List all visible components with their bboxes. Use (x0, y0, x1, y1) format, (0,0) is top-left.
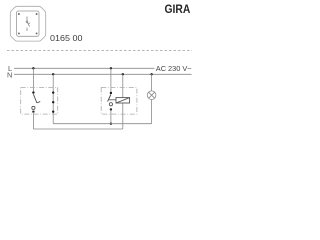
wire L down to switch S1 (32, 68, 34, 92)
wire load line (53, 123, 151, 125)
wire control line to coil (33, 128, 122, 130)
wire N down through left box (52, 74, 54, 123)
terminal dot top (32, 91, 34, 93)
device icon outer frame (10, 6, 45, 41)
lamp E1 (147, 91, 156, 100)
mechanical link to coil (109, 99, 116, 101)
lever (108, 95, 111, 102)
left box (switch unit) (21, 88, 58, 115)
wire N down to lamp (151, 74, 153, 91)
terminal dot bottom (110, 108, 112, 110)
terminal dot bottom (32, 111, 34, 113)
terminal dot top (110, 92, 112, 94)
left box N terminals (52, 91, 54, 93)
contact circle (32, 106, 35, 109)
screw top-right (36, 13, 38, 15)
relay coil K1 (116, 98, 130, 103)
wire L rail (14, 67, 155, 69)
svg-text:0165 00: 0165 00 (50, 34, 83, 43)
right box (relay insert) (101, 88, 137, 115)
wire lamp bottom riser (151, 100, 153, 124)
relay contact K1 (108, 92, 113, 111)
actuator tick (37, 102, 40, 103)
lever (33, 94, 37, 103)
screw bottom-right (36, 32, 38, 34)
wire contact output down (110, 110, 112, 124)
svg-text:AC 230 V~: AC 230 V~ (156, 66, 192, 73)
svg-text:GIRA: GIRA (165, 2, 191, 16)
screw top-left (18, 13, 20, 15)
wire N rail (14, 73, 192, 75)
wire N down to relay coil (122, 74, 124, 97)
wire coil bottom riser (122, 103, 124, 129)
node N to relay coil (122, 73, 124, 75)
svg-text:N: N (7, 71, 12, 80)
node N to left box (52, 73, 54, 75)
wire switch S1 output down (32, 112, 34, 129)
node N to lamp (150, 73, 152, 75)
switch S1 (32, 91, 40, 113)
dashed separator (7, 49, 192, 51)
screw bottom-left (18, 32, 20, 34)
icon switch symbol (26, 17, 30, 32)
device icon insert body (17, 11, 40, 36)
wire L down to relay contact (110, 68, 112, 93)
node load junction (110, 123, 112, 125)
node L to switch S1 (32, 67, 34, 69)
contact circle (109, 103, 112, 106)
node L to relay contact (110, 67, 112, 69)
